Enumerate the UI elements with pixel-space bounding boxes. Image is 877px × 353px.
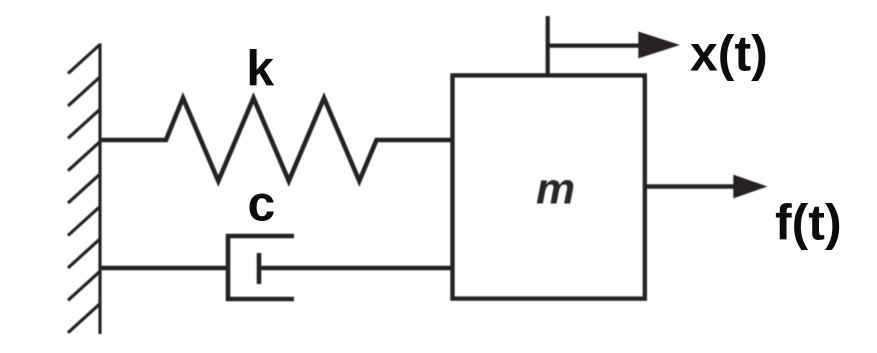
- mass m block: [453, 76, 645, 299]
- svg-text:m: m: [536, 165, 575, 214]
- damper c: [100, 236, 452, 299]
- svg-text:c: c: [248, 176, 276, 232]
- svg-text:k: k: [246, 41, 274, 97]
- svg-text:x(t): x(t): [690, 26, 768, 82]
- svg-text:f(t): f(t): [775, 194, 842, 250]
- spring k: [100, 98, 452, 181]
- arrow f(t): [646, 175, 768, 199]
- arrow x(t): [548, 16, 680, 77]
- wall: [68, 44, 100, 335]
